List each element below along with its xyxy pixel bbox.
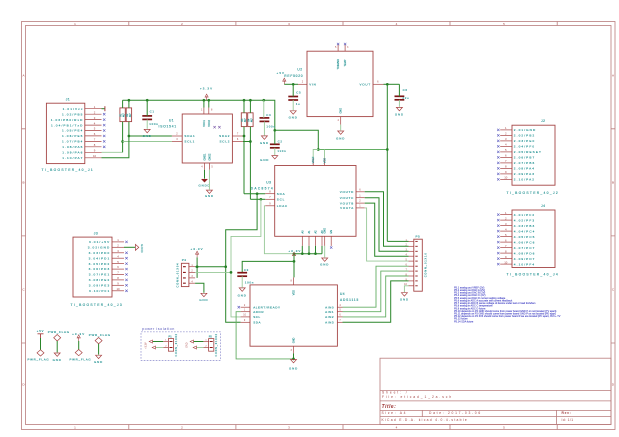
svg-text:4.07/PC7: 4.07/PC7 bbox=[514, 246, 536, 250]
svg-text:P5: P5 bbox=[416, 234, 421, 238]
svg-text:SCL: SCL bbox=[277, 198, 285, 202]
junction +3.3V rail bbox=[146, 99, 149, 102]
resistor R1 bbox=[120, 108, 126, 122]
title block bbox=[380, 358, 611, 424]
ground GNDD at U1 bbox=[198, 179, 210, 187]
wire U2 GND bbox=[340, 125, 342, 131]
svg-text:U4: U4 bbox=[340, 292, 345, 296]
svg-text:10: 10 bbox=[93, 154, 97, 158]
svg-text:3.10/PF1: 3.10/PF1 bbox=[89, 289, 110, 293]
svg-text:+5V: +5V bbox=[277, 71, 286, 75]
svg-text:PWR_FLAG: PWR_FLAG bbox=[48, 330, 70, 334]
junction SDA2 bbox=[243, 135, 246, 138]
svg-text:GNDD: GNDD bbox=[198, 183, 210, 187]
connector P4 CONN_01X04 bbox=[177, 258, 196, 287]
wire C6 bottom bbox=[398, 100, 400, 107]
svg-text:ISO1541: ISO1541 bbox=[159, 125, 178, 129]
wire VOUTB to P5.4 bbox=[365, 203, 409, 256]
svg-text:SDA1: SDA1 bbox=[184, 134, 195, 138]
wire U2 VOUT to C6 bbox=[384, 83, 400, 85]
power isolation note box bbox=[141, 327, 221, 360]
svg-text:2.01/GND: 2.01/GND bbox=[514, 128, 537, 132]
svg-text:Sheet: /: Sheet: / bbox=[382, 390, 409, 394]
svg-text:CONN_01X02: CONN_01X02 bbox=[215, 333, 218, 356]
arrow label GND at P1 bbox=[152, 346, 155, 349]
svg-text:3.01/+5V: 3.01/+5V bbox=[89, 240, 110, 244]
connector P2 CONN_01X02 bbox=[203, 333, 218, 356]
wire to DAC VDD pin riser bbox=[324, 150, 326, 159]
wire R4 top bbox=[249, 100, 251, 113]
wire SCL to U4 SCL bbox=[231, 199, 261, 317]
wire P1 pin2 bbox=[156, 347, 164, 349]
svg-text:GND: GND bbox=[289, 116, 298, 120]
svg-text:2.10/PA2: 2.10/PA2 bbox=[514, 178, 535, 182]
ground at U2 bbox=[336, 131, 345, 140]
junction SDA branch bbox=[256, 192, 259, 195]
ground at P4 bbox=[199, 293, 208, 302]
svg-text:GND: GND bbox=[289, 366, 298, 370]
wire C3 top to +3.3V bbox=[242, 261, 294, 272]
svg-text:C5: C5 bbox=[296, 91, 301, 95]
junction +3.3V rail bbox=[262, 99, 265, 102]
svg-text:GND: GND bbox=[320, 263, 329, 267]
wire +3.3V over to DAC supply bbox=[275, 130, 319, 149]
wire LDAC down to +3.3V rail bbox=[264, 206, 294, 254]
svg-text:1.01/Vcc: 1.01/Vcc bbox=[63, 107, 84, 111]
wire +5V to U2 VIN bbox=[284, 83, 298, 85]
svg-text:2.05/RESET: 2.05/RESET bbox=[514, 150, 542, 154]
wire +3.3V to U4 VDD bbox=[293, 254, 295, 278]
wire P4 pin1 to SDA bbox=[195, 266, 226, 268]
wire SDA from J1 pin10 up through R2 bbox=[102, 122, 129, 158]
connector P1 CONN_01X02 bbox=[163, 333, 178, 356]
wire C2 top bbox=[274, 130, 276, 144]
wire SDA down to DAC bbox=[243, 127, 245, 194]
svg-text:TI_BOOSTER_40_J3: TI_BOOSTER_40_J3 bbox=[71, 303, 124, 307]
junction +3.3V rail bbox=[207, 99, 210, 102]
note text block bbox=[454, 286, 561, 323]
wire SCL into U3 bbox=[250, 198, 265, 200]
wire C1 bottom bbox=[146, 119, 148, 128]
svg-text:1.04/PB1/TxD: 1.04/PB1/TxD bbox=[51, 123, 83, 127]
no-connect marks J1 pins 2-8 bbox=[103, 113, 105, 148]
svg-text:SDA: SDA bbox=[253, 321, 261, 325]
svg-text:2.07/PB6: 2.07/PB6 bbox=[514, 161, 536, 165]
wire U1 GND2 bbox=[208, 170, 210, 190]
svg-text:VCC1: VCC1 bbox=[203, 120, 206, 127]
svg-text:GND: GND bbox=[53, 358, 62, 362]
power +3.3V at U1 bbox=[200, 87, 213, 101]
svg-text:2.09/PA3: 2.09/PA3 bbox=[514, 172, 535, 176]
svg-text:C6: C6 bbox=[403, 88, 408, 92]
wire SCL from J1 pin9 bbox=[102, 151, 123, 153]
svg-text:3.04/PD1: 3.04/PD1 bbox=[89, 256, 111, 260]
I2C isolator U1 ISO1541 bbox=[159, 108, 243, 170]
svg-text:GND: GND bbox=[293, 337, 296, 343]
svg-text:+3.3V: +3.3V bbox=[191, 247, 204, 251]
junction +3.3V under U3 bbox=[301, 252, 304, 255]
svg-text:U3: U3 bbox=[266, 181, 271, 185]
wire U1 VCC2 to rail bbox=[208, 100, 210, 107]
svg-text:J3: J3 bbox=[94, 231, 98, 235]
wire VOUTC to P5.3 bbox=[365, 198, 409, 252]
wire P1 pin1 bbox=[153, 341, 164, 343]
junction P4 pin2 bbox=[230, 271, 233, 274]
junction SCL at R1 leg bbox=[121, 140, 124, 143]
svg-text:C2: C2 bbox=[278, 140, 283, 144]
svg-text:4.09/PD7: 4.09/PD7 bbox=[514, 257, 536, 261]
svg-text:+5V: +5V bbox=[37, 329, 45, 333]
svg-text:KiCad E.D.A. kicad 4.0.4-stab: KiCad E.D.A. kicad 4.0.4-stable bbox=[382, 418, 468, 422]
svg-text:1.10/PA7: 1.10/PA7 bbox=[62, 156, 83, 160]
ground at U3 bbox=[320, 258, 329, 267]
svg-text:1.06/PE5: 1.06/PE5 bbox=[62, 134, 84, 138]
svg-text:+3.3V: +3.3V bbox=[200, 87, 213, 91]
wire J3.2 GND bbox=[124, 246, 135, 248]
arrow label +3.3V at P1 bbox=[144, 340, 152, 349]
ground at J3 pin2 (pointing right) bbox=[135, 244, 144, 253]
wire SCL down to DAC bbox=[249, 127, 251, 200]
svg-text:U1: U1 bbox=[169, 118, 174, 122]
junction C3 branch bbox=[293, 260, 296, 263]
wire R3 top bbox=[243, 100, 245, 113]
svg-text:TEMP: TEMP bbox=[344, 59, 347, 66]
svg-text:3.02/GND: 3.02/GND bbox=[88, 246, 111, 250]
junction DAC supply bbox=[317, 148, 320, 151]
wire AIN2 to P5.8 bbox=[343, 276, 409, 317]
svg-text:1.03/PB0/RxD: 1.03/PB0/RxD bbox=[51, 118, 84, 122]
ground GND at U1 bbox=[205, 190, 214, 198]
wire +3.3V rail under U3 bbox=[294, 253, 322, 255]
junction +3.3V rail bbox=[243, 99, 246, 102]
PWR_FLAG 2 bbox=[48, 330, 70, 341]
wire PWR_FLAG to GND bbox=[56, 341, 58, 352]
wire P4 pin4 to GND bbox=[195, 283, 204, 293]
svg-text:VOUTC: VOUTC bbox=[340, 196, 354, 200]
svg-text:P1: P1 bbox=[169, 334, 173, 338]
svg-text:TI_BOOSTER_40_J1: TI_BOOSTER_40_J1 bbox=[42, 168, 95, 172]
svg-text:VOUTD: VOUTD bbox=[340, 190, 354, 194]
svg-text:VDD: VDD bbox=[293, 290, 296, 295]
svg-text:4.06/PC6: 4.06/PC6 bbox=[514, 240, 536, 244]
capacitor C1 bbox=[142, 109, 158, 126]
svg-text:PWR_FLAG: PWR_FLAG bbox=[89, 333, 111, 337]
connector J4 TI_BOOSTER_40_J4 bbox=[497, 204, 559, 277]
wire U3 address pin to +3.3V bbox=[321, 246, 323, 254]
ground at C4 bbox=[260, 136, 269, 145]
wire U1 GND1 bbox=[204, 170, 206, 179]
svg-text:CONN_01X02: CONN_01X02 bbox=[175, 333, 178, 356]
svg-text:C1: C1 bbox=[150, 109, 155, 113]
svg-text:1.07/PB4: 1.07/PB4 bbox=[62, 140, 84, 144]
wire SCL up through R1 bbox=[122, 122, 124, 153]
wire +3.3V to PWR_FLAG bbox=[78, 341, 80, 350]
svg-text:PWR_FLAG: PWR_FLAG bbox=[70, 358, 92, 362]
capacitor C5 bbox=[288, 91, 301, 107]
no-connect marks U2 top pins bbox=[337, 43, 346, 45]
svg-text:3.08/PE2: 3.08/PE2 bbox=[89, 278, 111, 282]
svg-text:10: 10 bbox=[504, 176, 508, 180]
svg-text:A: A bbox=[22, 74, 24, 78]
svg-text:VIN: VIN bbox=[309, 83, 316, 87]
wire U3 address pin to +3.3V bbox=[315, 246, 317, 254]
svg-text:SCL2: SCL2 bbox=[219, 140, 230, 144]
svg-text:J1: J1 bbox=[66, 98, 70, 102]
svg-text:Date: 2017-03-06: Date: 2017-03-06 bbox=[429, 411, 482, 415]
svg-text:110n: 110n bbox=[277, 149, 286, 153]
wire +5V to PWR_FLAG bbox=[40, 338, 42, 350]
svg-text:+3.3V: +3.3V bbox=[144, 342, 147, 349]
wire AIN0 to P5.6 bbox=[343, 266, 409, 307]
svg-text:100n: 100n bbox=[149, 122, 158, 126]
svg-text:REF5020: REF5020 bbox=[284, 74, 303, 78]
power +3.3V at P4 bbox=[191, 247, 204, 257]
svg-text:2.02/PB2: 2.02/PB2 bbox=[514, 134, 536, 138]
junction SCL branch bbox=[260, 198, 263, 201]
svg-text:GND: GND bbox=[324, 228, 327, 234]
svg-text:VREF: VREF bbox=[312, 156, 315, 163]
svg-text:2.04/PF0: 2.04/PF0 bbox=[514, 145, 535, 149]
ground at P5 bbox=[400, 293, 409, 302]
wire VOUTA to P5.5 bbox=[365, 208, 409, 261]
svg-text:2.08/PA4: 2.08/PA4 bbox=[514, 167, 535, 171]
svg-text:AIN0: AIN0 bbox=[325, 305, 334, 309]
svg-text:1u: 1u bbox=[296, 102, 301, 106]
wire SDA into U3 bbox=[244, 193, 265, 195]
svg-text:+3.3V: +3.3V bbox=[288, 249, 301, 253]
svg-text:J2: J2 bbox=[541, 119, 545, 123]
svg-text:4.01/PF2: 4.01/PF2 bbox=[514, 213, 535, 217]
ground at C1 bbox=[143, 129, 152, 138]
junction +3.3V rail bbox=[249, 99, 252, 102]
svg-text:B: B bbox=[22, 181, 24, 185]
wire U3 address pin to +3.3V bbox=[308, 246, 310, 254]
junction SDA at R2 leg bbox=[128, 135, 131, 138]
svg-text:3.07/PE1: 3.07/PE1 bbox=[89, 273, 111, 277]
svg-text:ALERT/READY: ALERT/READY bbox=[253, 305, 280, 309]
arrow label GND at P2 bbox=[186, 340, 194, 348]
wire C1 top bbox=[146, 100, 148, 116]
svg-text:Rev:: Rev: bbox=[562, 411, 572, 415]
wire P2 pin1 bbox=[194, 341, 204, 343]
svg-text:GND: GND bbox=[238, 293, 247, 297]
wire U4 GND down bbox=[293, 353, 295, 359]
capacitor C3 bbox=[237, 268, 254, 285]
svg-text:J4: J4 bbox=[541, 204, 545, 208]
power +3.3V flag bbox=[72, 332, 85, 341]
svg-text:VOUT: VOUT bbox=[359, 83, 371, 87]
wire SDA to U4 SDA bbox=[226, 194, 257, 323]
junction +3.3V under U3 bbox=[293, 252, 296, 255]
svg-text:GND2: GND2 bbox=[208, 153, 211, 161]
junction +3.3V under U3 bbox=[308, 252, 311, 255]
resistor R4 bbox=[248, 113, 254, 127]
ground at U4 bbox=[289, 360, 298, 371]
wire C4 top bbox=[263, 100, 265, 118]
svg-text:power isolation: power isolation bbox=[142, 327, 175, 331]
wire C6 top bbox=[398, 84, 400, 96]
svg-text:B: B bbox=[612, 181, 614, 185]
svg-text:100n: 100n bbox=[245, 281, 254, 285]
svg-text:4.03/PB3: 4.03/PB3 bbox=[514, 224, 536, 228]
svg-text:AIN2: AIN2 bbox=[325, 315, 334, 319]
wire SCL to U1 SCL1 bbox=[123, 141, 172, 143]
svg-text:TI_BOOSTER_40_J4: TI_BOOSTER_40_J4 bbox=[507, 273, 560, 277]
svg-text:4.08/PD6: 4.08/PD6 bbox=[514, 251, 536, 255]
ground at C5 bbox=[289, 111, 298, 120]
svg-text:C4: C4 bbox=[266, 113, 271, 117]
svg-text:GND1: GND1 bbox=[204, 153, 207, 161]
svg-text:SCL1: SCL1 bbox=[184, 140, 195, 144]
svg-text:+3.3V: +3.3V bbox=[72, 332, 85, 336]
wire AIN1 to P5.7 bbox=[343, 271, 409, 312]
power bar at J1 pin 1 bbox=[102, 106, 105, 111]
ground at C6 bbox=[395, 107, 404, 116]
svg-text:GND: GND bbox=[395, 113, 404, 117]
wire +3.3V rail top with drop to C2 bbox=[123, 100, 275, 130]
svg-text:A: A bbox=[612, 74, 614, 78]
wire U1 SCL2 to R4 leg bbox=[243, 141, 251, 143]
svg-text:GND: GND bbox=[140, 244, 144, 253]
resistor R3 bbox=[241, 113, 247, 127]
wire VREF into P5 pin1 bbox=[387, 240, 408, 242]
wire R2 top lead bbox=[128, 100, 130, 108]
svg-text:GND: GND bbox=[340, 108, 343, 114]
junction U4 GND bbox=[292, 358, 295, 361]
wire C2 bottom bbox=[274, 148, 276, 155]
voltage reference U2 REF5020 bbox=[284, 45, 383, 125]
svg-text:GND: GND bbox=[205, 194, 214, 198]
wire P2 pin2 bbox=[197, 347, 204, 349]
wire VOUTD to P5.2 bbox=[365, 192, 409, 247]
wire J1 pin1 to power bar bbox=[102, 108, 105, 110]
ground at C3 bbox=[238, 288, 247, 297]
svg-text:4.05/PC5: 4.05/PC5 bbox=[514, 235, 536, 239]
power +3.3V under U3 bbox=[288, 249, 301, 259]
svg-text:Id: 1/1: Id: 1/1 bbox=[562, 418, 574, 422]
svg-text:AIN1: AIN1 bbox=[325, 310, 334, 314]
wire U1 SDA2 to R3 leg bbox=[243, 135, 244, 137]
connector P5 CONN_01X10 bbox=[404, 234, 427, 291]
svg-text:3.03/PD0: 3.03/PD0 bbox=[89, 251, 111, 255]
svg-text:3.06/PD3: 3.06/PD3 bbox=[89, 267, 111, 271]
junction C2 +3.3V bbox=[273, 129, 276, 132]
svg-text:2.03/PE0: 2.03/PE0 bbox=[514, 139, 536, 143]
svg-text:ADS1115: ADS1115 bbox=[340, 298, 359, 302]
svg-text:P5.12 depends on P2 3V3 should: P5.12 depends on P2 3V3 should come from… bbox=[454, 315, 561, 318]
capacitor C4 bbox=[260, 113, 276, 129]
svg-text:10: 10 bbox=[504, 260, 508, 264]
junction +3.3V under U3 bbox=[314, 252, 317, 255]
svg-text:1.05/PE4: 1.05/PE4 bbox=[62, 129, 84, 133]
svg-text:1.02/PB5: 1.02/PB5 bbox=[62, 112, 84, 116]
PWR_FLAG 3 bbox=[70, 350, 92, 362]
svg-text:Size: A4: Size: A4 bbox=[382, 411, 408, 415]
connector J2 TI_BOOSTER_40_J2 bbox=[497, 119, 559, 195]
wire P4 +3.3V drop bbox=[196, 257, 198, 278]
wire U3 address pin to +3.3V bbox=[301, 246, 303, 254]
PWR_FLAG 4 bbox=[89, 333, 111, 344]
svg-text:GND: GND bbox=[400, 298, 409, 302]
svg-text:3.09/PE3: 3.09/PE3 bbox=[89, 284, 111, 288]
svg-text:P5.14 SDA future: P5.14 SDA future bbox=[454, 320, 474, 323]
svg-text:1.08/PA5: 1.08/PA5 bbox=[62, 145, 83, 149]
svg-text:3.05/PD2: 3.05/PD2 bbox=[89, 262, 111, 266]
wire PWR_FLAG to GND 2 bbox=[98, 344, 100, 355]
wire C5 bottom bbox=[292, 100, 294, 110]
svg-text:100n: 100n bbox=[266, 124, 275, 128]
svg-text:P2: P2 bbox=[209, 334, 213, 338]
wire C5 top bbox=[292, 84, 294, 96]
junction +3.3V rail bbox=[203, 99, 206, 102]
svg-text:22u: 22u bbox=[402, 96, 409, 100]
wire to DAC VREF pin riser bbox=[313, 150, 318, 159]
PWR_FLAG 1 bbox=[28, 350, 50, 362]
svg-text:GND: GND bbox=[199, 298, 208, 302]
svg-text:4.10/PF4: 4.10/PF4 bbox=[514, 262, 535, 266]
wire AIN3 to P5.9 bbox=[343, 281, 409, 322]
wire DAC supply to VREF vertical bbox=[318, 149, 387, 151]
wire SDA to U1 SDA1 bbox=[129, 135, 172, 137]
svg-text:CONN_01X04: CONN_01X04 bbox=[177, 263, 180, 288]
svg-text:EN: EN bbox=[330, 230, 333, 234]
wire U4 ADDR to GND bbox=[236, 312, 293, 359]
wire U3 GND pin bbox=[324, 246, 326, 258]
svg-text:LDAC: LDAC bbox=[277, 204, 288, 208]
wire VREF vertical to P5 bbox=[386, 84, 388, 241]
svg-text:TRIM/NR: TRIM/NR bbox=[337, 59, 340, 70]
svg-text:4.02/PF3: 4.02/PF3 bbox=[514, 218, 535, 222]
svg-text:C3: C3 bbox=[244, 268, 249, 272]
junction VOUT bbox=[386, 83, 389, 86]
svg-text:VDD: VDD bbox=[324, 158, 327, 163]
power +5V at U2 VIN bbox=[277, 71, 286, 85]
junction at C5 bbox=[292, 83, 295, 86]
wire R1 top lead bbox=[122, 100, 124, 108]
svg-text:U2: U2 bbox=[297, 67, 302, 71]
svg-text:AIN3: AIN3 bbox=[325, 321, 334, 325]
ground at C2 bbox=[260, 156, 278, 162]
svg-text:TI_BOOSTER_40_J2: TI_BOOSTER_40_J2 bbox=[507, 191, 560, 195]
svg-text:GND: GND bbox=[336, 136, 345, 140]
junction +3.3V rail bbox=[128, 99, 131, 102]
svg-text:GND: GND bbox=[94, 360, 103, 364]
junction P4 pin1 bbox=[224, 265, 227, 268]
svg-text:1.09/PA6: 1.09/PA6 bbox=[62, 151, 83, 155]
power +5V flag group bbox=[37, 329, 45, 338]
wire P5.10 to GND bbox=[404, 286, 408, 292]
svg-text:VOUTB: VOUTB bbox=[340, 201, 354, 205]
svg-text:GND: GND bbox=[143, 134, 152, 138]
connector J1 TI_BOOSTER_40_J1 bbox=[42, 98, 102, 172]
svg-text:GND: GND bbox=[186, 342, 189, 348]
svg-text:Title:: Title: bbox=[382, 404, 397, 410]
wire C4 bottom bbox=[263, 121, 265, 135]
svg-text:SDA2: SDA2 bbox=[219, 134, 230, 138]
svg-text:PWR_FLAG: PWR_FLAG bbox=[28, 358, 50, 362]
svg-text:SDA: SDA bbox=[277, 192, 286, 196]
ground at flag 4 bbox=[94, 355, 103, 364]
capacitor C6 bbox=[395, 88, 410, 100]
svg-text:VOUTA: VOUTA bbox=[340, 206, 354, 210]
svg-text:ADDR: ADDR bbox=[253, 310, 264, 314]
svg-text:4.04/PC4: 4.04/PC4 bbox=[514, 229, 536, 233]
wire U1 VCC1 to rail bbox=[203, 100, 205, 107]
DAC U3 DAC8574 bbox=[251, 156, 365, 246]
junction P4 +3.3V bbox=[196, 265, 199, 268]
svg-text:SCL: SCL bbox=[253, 315, 261, 319]
svg-text:2.06/PB7: 2.06/PB7 bbox=[514, 156, 536, 160]
